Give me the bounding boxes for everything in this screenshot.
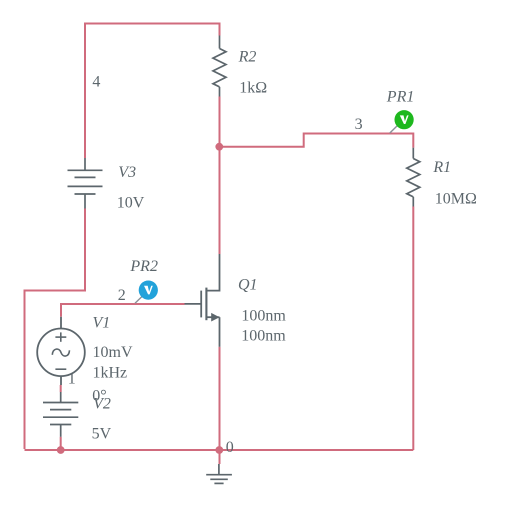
wire net2 (V1+ to Q1 gate) — [61, 304, 185, 317]
svg-text:V3: V3 — [118, 164, 136, 181]
wire net4 top (V3+ to R2 top) — [85, 24, 220, 159]
svg-text:3: 3 — [355, 116, 363, 133]
svg-text:2: 2 — [118, 287, 126, 304]
wire net3 (R2 bottom to Q1 drain vertical) — [219, 97, 221, 255]
svg-text:1kΩ: 1kΩ — [239, 80, 267, 97]
svg-text:5V: 5V — [92, 426, 112, 443]
svg-text:100nm: 100nm — [241, 308, 286, 325]
svg-text:100nm: 100nm — [241, 328, 286, 345]
svg-text:4: 4 — [92, 74, 100, 91]
junction dot V2 bottom — [57, 446, 65, 454]
ac source V1 — [37, 317, 85, 385]
svg-text:0: 0 — [226, 439, 234, 456]
svg-text:R2: R2 — [238, 48, 257, 65]
svg-text:V1: V1 — [93, 314, 111, 331]
svg-text:10MΩ: 10MΩ — [435, 190, 477, 207]
probe PR1 — [390, 126, 398, 134]
svg-text:R1: R1 — [432, 159, 451, 176]
wire net3 horizontal to R1 with step — [220, 134, 414, 148]
junction dot node 0 at ground — [215, 446, 223, 454]
svg-text:10V: 10V — [117, 195, 145, 212]
Q1 source arrow — [211, 313, 219, 322]
transistor Q1 NMOS — [185, 254, 220, 347]
ground symbol — [206, 464, 232, 483]
svg-text:10mV: 10mV — [93, 344, 133, 361]
svg-text:Q1: Q1 — [238, 277, 258, 294]
wire net0 bottom rail — [25, 449, 414, 451]
resistor R1 — [407, 148, 420, 207]
battery V2 — [43, 392, 78, 437]
svg-text:PR1: PR1 — [386, 89, 415, 106]
wire net0 left loop (V3- down, jog left, down to bottom rail) — [25, 209, 86, 450]
probe PR2 — [135, 297, 142, 304]
wire net1 (V1- to V2+) — [60, 385, 62, 392]
junction node 3 dot — [215, 143, 223, 151]
svg-text:V2: V2 — [93, 396, 111, 413]
wire ground stub — [219, 450, 221, 464]
wire net0 (V2- to bottom rail) — [60, 437, 62, 450]
wire net0 (Q1 source down to bottom rail) — [219, 347, 221, 450]
svg-text:PR2: PR2 — [129, 258, 158, 275]
resistor R2 — [213, 36, 226, 97]
battery V3 — [68, 158, 103, 209]
svg-text:1kHz: 1kHz — [93, 365, 128, 382]
wire net0 right vertical (bottom rail up to R1 bottom) — [412, 207, 414, 451]
